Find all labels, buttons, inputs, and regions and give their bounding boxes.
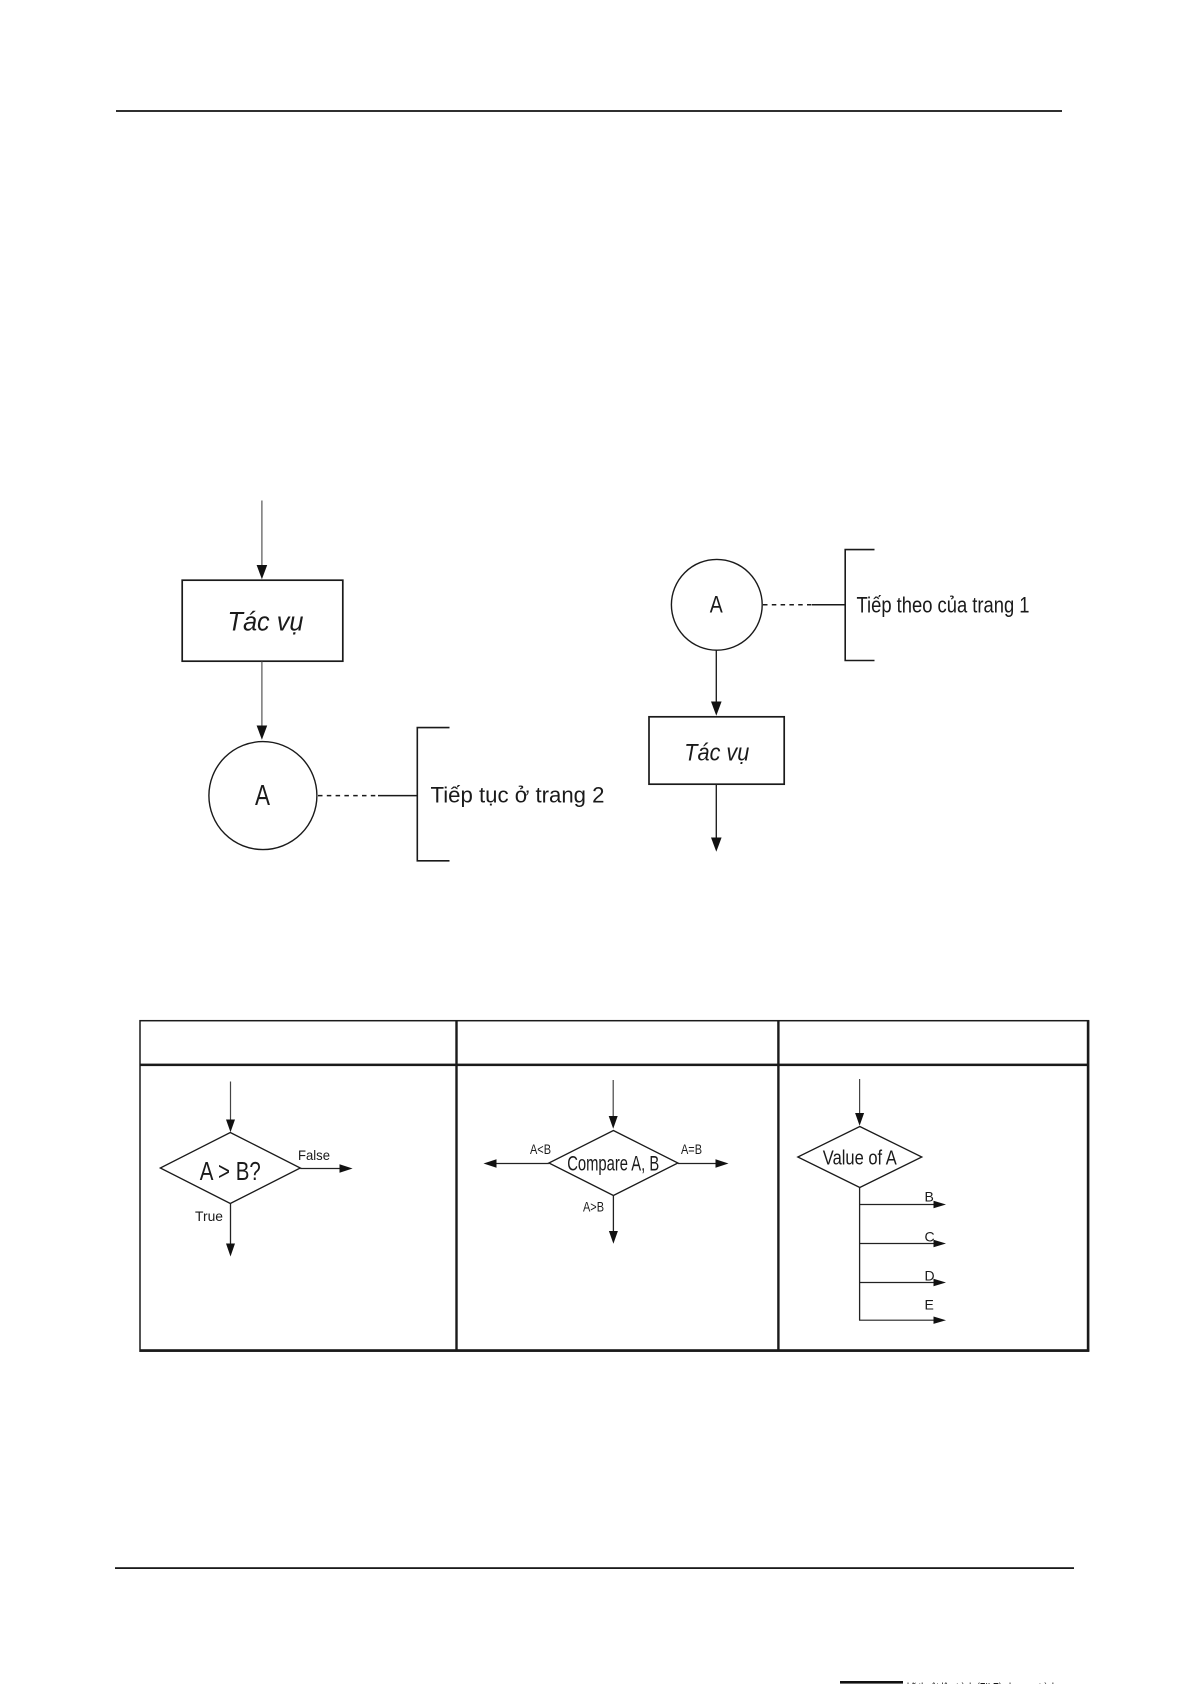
wire: entry arrow cell 1 [226, 1082, 235, 1133]
wire: False arrow (cell 1) [300, 1164, 352, 1172]
wire: True arrow (cell 1) [226, 1204, 235, 1257]
wire: arrow from process box to connector A (left) [257, 662, 268, 740]
wire: A=B arrow (cell 2, right) [678, 1159, 729, 1167]
bracket (left flowchart) [417, 728, 449, 861]
wire: solid leader segment (right) [812, 604, 845, 606]
svg-text:B: B [925, 1189, 934, 1205]
decision diamond "Compare A, B" [549, 1131, 678, 1196]
svg-text:A: A [710, 592, 723, 619]
svg-text:Value of A: Value of A [823, 1147, 897, 1170]
table column divider 1 [455, 1021, 457, 1352]
wire: dashed leader from connector A (left) [318, 795, 379, 797]
svg-text:Tiếp tục ở trang 2: Tiếp tục ở trang 2 [431, 783, 605, 808]
wire: solid leader segment (left) [378, 795, 417, 797]
process box "Tác vụ" (left flowchart) [182, 580, 343, 661]
bracket (right flowchart) [845, 550, 874, 661]
svg-text:D: D [925, 1268, 935, 1284]
table outer border [140, 1021, 1089, 1352]
footer bar fragment (bottom edge) [840, 1681, 903, 1684]
wire: exit arrow below process box (right) [711, 785, 722, 852]
decision diamond "Value of A" [798, 1127, 922, 1188]
wire: A&gt;B arrow (cell 2, bottom) [609, 1196, 618, 1244]
connector circle A (left flowchart) [209, 742, 317, 850]
svg-text:Tác vụ: Tác vụ [228, 606, 304, 636]
connector circle A (right flowchart) [671, 559, 762, 650]
svg-text:A: A [255, 780, 270, 812]
svg-text:True: True [195, 1208, 223, 1224]
svg-text:A>B: A>B [583, 1199, 604, 1215]
decision diamond "A > B?" [160, 1133, 300, 1204]
svg-text:A=B: A=B [681, 1141, 702, 1157]
wire: dashed leader from connector A (right) [763, 604, 813, 606]
wire: selector spine (cell 3) [859, 1188, 861, 1321]
wire: entry arrow cell 2 [609, 1080, 618, 1129]
table header separator [140, 1064, 1089, 1067]
svg-text:kỹ thuật lập trình (FILE) chươ: kỹ thuật lập trình (FILE) chương trình [907, 1679, 1057, 1684]
footer rule [115, 1567, 1074, 1569]
header rule [116, 110, 1062, 112]
wire: branch B arrow [860, 1201, 946, 1208]
wire: entry arrow cell 3 [855, 1079, 864, 1126]
svg-text:False: False [298, 1147, 330, 1163]
svg-text:A > B?: A > B? [200, 1156, 261, 1186]
svg-text:Tác vụ: Tác vụ [684, 740, 749, 767]
wire: branch C arrow [860, 1240, 946, 1247]
svg-text:C: C [925, 1229, 935, 1245]
table column divider 2 [777, 1021, 779, 1352]
wire: branch D arrow [860, 1279, 946, 1286]
wire: A&lt;B arrow (cell 2, left) [484, 1159, 549, 1167]
svg-text:Tiếp theo của trang 1: Tiếp theo của trang 1 [857, 592, 1030, 617]
wire: branch E arrow [859, 1317, 946, 1324]
svg-text:A<B: A<B [530, 1141, 551, 1157]
svg-text:E: E [925, 1297, 934, 1313]
wire: arrow into process box (left flowchart) [257, 501, 268, 580]
wire: arrow from connector A to process box (right) [711, 651, 722, 716]
svg-text:Compare A, B: Compare A, B [567, 1153, 659, 1176]
process box "Tác vụ" (right flowchart) [649, 717, 784, 784]
